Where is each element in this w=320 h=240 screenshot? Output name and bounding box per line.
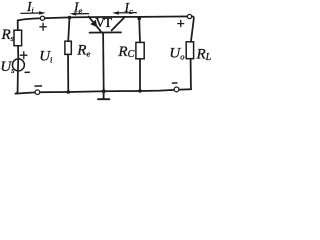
arrowhead Ic <box>112 11 119 15</box>
plus sign Uo <box>178 20 184 26</box>
wire RC branch <box>138 18 141 91</box>
svg-text:Ie: Ie <box>73 0 83 15</box>
wire top rail <box>18 16 193 20</box>
arrowhead Ie <box>70 12 77 16</box>
node output bottom terminal <box>174 87 179 92</box>
arrowhead Ii <box>39 11 46 15</box>
svg-text:Rs: Rs <box>1 27 15 43</box>
minus sign Uo <box>172 82 177 84</box>
minus sign Ui <box>35 85 42 87</box>
current arrow Ic <box>118 12 137 14</box>
resistor RC <box>136 42 144 58</box>
node input top terminal <box>40 16 44 20</box>
current arrow Ii <box>21 12 40 14</box>
transistor VT base bar <box>90 31 122 33</box>
node input bottom terminal <box>35 90 40 95</box>
current arrow Ie <box>75 13 89 15</box>
svg-text:RC: RC <box>117 44 134 60</box>
transistor VT collector <box>112 17 125 30</box>
resistor Rs <box>14 30 22 46</box>
wire base lead <box>102 33 105 92</box>
node output top terminal <box>187 14 191 18</box>
junction dot base bottom <box>102 89 106 93</box>
wire Re branch <box>68 18 70 93</box>
minus sign Us <box>25 71 29 73</box>
junction dot Re top <box>68 16 72 20</box>
ground <box>98 92 109 99</box>
junction dot RC top <box>137 17 141 21</box>
svg-text:Uo: Uo <box>169 46 184 62</box>
wire bottom rail <box>16 89 192 93</box>
resistor RL <box>186 42 193 59</box>
svg-text:Re: Re <box>76 43 90 59</box>
transistor VT emitter arrowhead <box>90 20 97 27</box>
wire left branch <box>16 20 19 93</box>
svg-text:Ii: Ii <box>26 0 34 15</box>
svg-text:RL: RL <box>196 47 212 63</box>
resistor Re <box>65 41 71 54</box>
transistor VT emitter <box>89 17 101 32</box>
plus sign Us <box>20 52 27 59</box>
svg-text:Ui: Ui <box>39 49 53 65</box>
junction dot Re bottom <box>67 90 71 94</box>
plus sign Ui <box>40 23 46 30</box>
wire right branch <box>191 16 194 89</box>
junction dot RC bottom <box>138 89 142 93</box>
source Us <box>12 59 24 71</box>
svg-text:Ic: Ic <box>124 0 134 16</box>
svg-text:VT: VT <box>95 15 113 30</box>
